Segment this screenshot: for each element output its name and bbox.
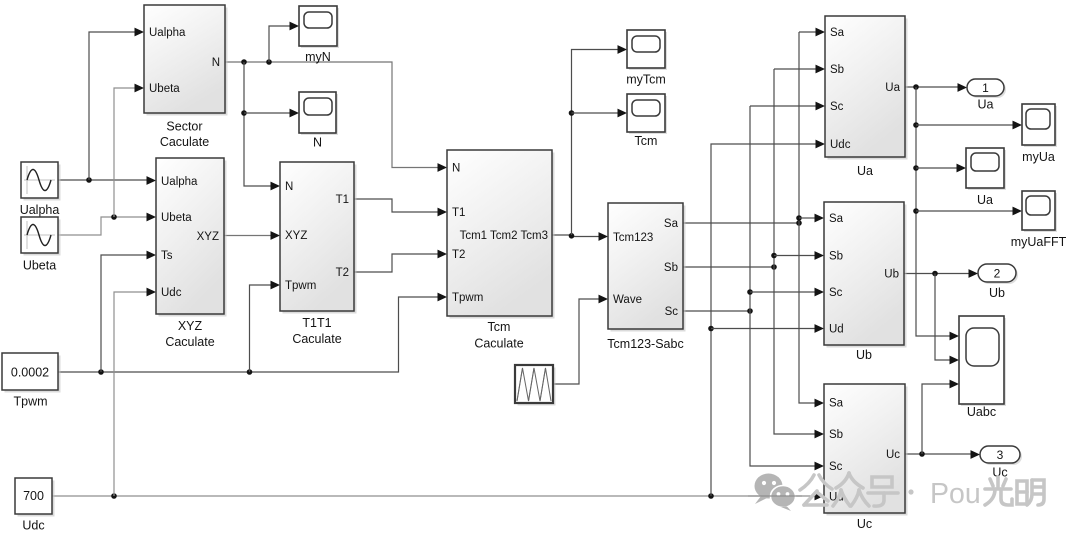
outport 2 Ub	[978, 264, 1018, 300]
wire Ualpha branch up to Sector.Ualpha	[89, 28, 144, 180]
svg-text:N: N	[212, 57, 220, 69]
svg-text:Tcm1 Tcm2 Tcm3: Tcm1 Tcm2 Tcm3	[460, 230, 548, 242]
wire Tpwm constant to Tcm.Tpwm	[58, 293, 447, 375]
triangle wave generator	[515, 365, 556, 406]
scope Uabc	[959, 316, 1006, 419]
svg-text:Tcm: Tcm	[635, 134, 658, 148]
svg-text:Caculate: Caculate	[474, 337, 523, 351]
svg-text:Tcm123: Tcm123	[613, 232, 653, 244]
wire Udc riser to Ua.Udc and Ub.Ud	[708, 140, 825, 496]
svg-text:Sa: Sa	[829, 213, 844, 225]
svg-text:Ubeta: Ubeta	[149, 83, 180, 95]
scope N	[299, 92, 338, 150]
outport 1 Ua	[967, 79, 1006, 112]
svg-text:Ub: Ub	[884, 269, 899, 281]
svg-text:0.0002: 0.0002	[11, 366, 49, 380]
svg-text:Sa: Sa	[664, 218, 679, 230]
wire N branch to scope N	[244, 109, 299, 118]
wire Udc bus segment over watermark	[748, 495, 802, 497]
constant 700 Udc	[15, 478, 55, 533]
svg-text:N: N	[313, 136, 322, 150]
svg-text:Ualpha: Ualpha	[20, 203, 60, 217]
wire Tpwm branch up to XYZ.Ts	[101, 251, 156, 372]
svg-text:Sector: Sector	[166, 120, 202, 134]
svg-text:Ub: Ub	[989, 286, 1005, 300]
wire Tcm branch up to scope myTcm	[569, 45, 627, 235]
svg-text:Udc: Udc	[830, 139, 851, 151]
svg-text:Sb: Sb	[664, 262, 678, 274]
watermark wechat icon	[755, 474, 796, 512]
wire Sa branch to Ub.Sa	[799, 214, 824, 223]
svg-text:Udc: Udc	[161, 287, 182, 299]
svg-text:1: 1	[982, 81, 989, 95]
wire Sc branch to Ub.Sc	[750, 288, 824, 297]
wire N branch up to scope myN	[269, 22, 299, 62]
wire Sector.N output to Tcm.N	[225, 59, 447, 172]
wire Ub bus down to Uabc input 2	[935, 274, 959, 365]
svg-text:T1: T1	[452, 207, 465, 219]
wire Sc bus from Tcm123-Sabc.Sc	[683, 102, 825, 471]
block Sector Caculate U1	[144, 5, 228, 149]
watermark text guang	[985, 477, 1012, 505]
wire Ua bus down to Uabc input 1	[913, 87, 959, 340]
wire Tcm output to Tcm123-Sabc input	[552, 232, 608, 241]
svg-text:Uabc: Uabc	[967, 405, 996, 419]
wire Uc bus up to Uabc input 3	[922, 380, 959, 454]
scope Tcm	[627, 94, 667, 148]
wire Ub output to outport 2	[904, 269, 978, 278]
wire Udc branch to Ub.Ud	[711, 324, 824, 333]
svg-text:Sb: Sb	[830, 64, 844, 76]
svg-text:Tcm: Tcm	[488, 320, 511, 334]
svg-text:myUaFFT: myUaFFT	[1011, 235, 1067, 249]
svg-text:Ud: Ud	[829, 324, 844, 336]
block Tcm123-Sabc U5	[607, 203, 685, 351]
scope myUa	[1022, 104, 1057, 164]
wire Ubeta source to XYZ.Ubeta	[58, 213, 156, 235]
wire Sb branch to Ub.Sb	[774, 251, 824, 260]
wire Ua branch to display Ua	[916, 164, 966, 173]
svg-text:Sa: Sa	[830, 27, 845, 39]
svg-text:Wave: Wave	[613, 294, 642, 306]
wire Ua branch to scope myUa	[916, 121, 1022, 130]
block Tcm Caculate U4	[447, 150, 555, 351]
constant 0.0002 Tpwm	[2, 353, 61, 409]
svg-text:Uc: Uc	[886, 449, 900, 461]
block Ua U6	[825, 16, 908, 178]
svg-text:Ua: Ua	[857, 164, 873, 178]
scope myN	[299, 6, 339, 64]
sine wave source Ubeta	[21, 217, 61, 273]
svg-text:Uc: Uc	[857, 517, 872, 531]
svg-text:3: 3	[997, 448, 1004, 462]
svg-text:Sb: Sb	[829, 251, 843, 263]
wire Sb bus from Tcm123-Sabc.Sb	[683, 65, 825, 439]
wire N branch down to scope N and T1T1.N	[241, 62, 280, 190]
svg-text:Sa: Sa	[829, 398, 844, 410]
svg-text:XYZ: XYZ	[178, 319, 203, 333]
wire Udc branch up to XYZ.Udc	[114, 288, 156, 496]
svg-text:Ub: Ub	[856, 348, 872, 362]
wire Ubeta branch up to Sector.Ubeta	[114, 84, 144, 217]
svg-text:Ualpha: Ualpha	[149, 27, 186, 39]
outport 3 Uc	[980, 446, 1022, 480]
wire Ua output to outport 1	[905, 83, 967, 92]
svg-text:Tcm123-Sabc: Tcm123-Sabc	[607, 337, 683, 351]
svg-text:T1: T1	[336, 194, 349, 206]
svg-text:Caculate: Caculate	[165, 335, 214, 349]
svg-text:T1T1: T1T1	[302, 316, 331, 330]
svg-text:Ua: Ua	[978, 98, 994, 112]
wire Uc output to outport 3	[905, 450, 980, 459]
block XYZ Caculate U2	[156, 158, 227, 349]
wire Sa bus from Tcm123-Sabc.Sa	[683, 28, 825, 408]
svg-text:N: N	[452, 163, 460, 175]
svg-text:Ubeta: Ubeta	[161, 212, 192, 224]
wire Ualpha source to XYZ.Ualpha	[58, 176, 156, 185]
wire Tpwm branch up to T1T1.Tpwm	[250, 281, 281, 372]
svg-text:Caculate: Caculate	[292, 332, 341, 346]
watermark text zhong	[833, 473, 869, 506]
svg-text:Sc: Sc	[829, 287, 843, 299]
svg-text:Tpwm: Tpwm	[13, 395, 47, 409]
watermark text hao	[868, 477, 898, 506]
wire Tcm branch to scope Tcm	[572, 109, 628, 118]
scope myUaFFT	[1011, 191, 1067, 249]
svg-text:Ua: Ua	[977, 193, 993, 207]
svg-text:Tpwm: Tpwm	[452, 292, 483, 304]
block T1T1 Caculate U3	[280, 162, 357, 346]
sine wave source Ualpha	[20, 162, 61, 217]
svg-text:Sb: Sb	[829, 429, 843, 441]
wire XYZ output to T1T1.XYZ	[224, 231, 280, 240]
wire T1T1.T2 to Tcm.T2	[354, 250, 447, 272]
watermark text ming	[1017, 480, 1044, 505]
svg-text:Pou: Pou	[930, 478, 981, 510]
svg-text:Ualpha: Ualpha	[161, 176, 198, 188]
watermark middle dot	[908, 489, 913, 494]
block Ub U7	[824, 202, 907, 362]
svg-text:Udc: Udc	[22, 519, 44, 533]
svg-text:T2: T2	[336, 267, 349, 279]
display Ua	[966, 148, 1006, 207]
svg-text:myN: myN	[305, 50, 331, 64]
svg-text:Sc: Sc	[830, 101, 844, 113]
svg-text:Sc: Sc	[829, 461, 843, 473]
svg-text:N: N	[285, 181, 293, 193]
svg-text:XYZ: XYZ	[197, 231, 219, 243]
watermark text gong	[800, 475, 832, 505]
svg-text:T2: T2	[452, 249, 465, 261]
svg-text:XYZ: XYZ	[285, 230, 307, 242]
wire Udc constant 700 bus to Uc.Ud	[52, 492, 824, 501]
svg-text:Sc: Sc	[665, 306, 679, 318]
svg-text:Ts: Ts	[161, 250, 173, 262]
block Uc U8	[824, 384, 908, 531]
wire triangle wave to Tcm123-Sabc.Wave	[553, 295, 608, 384]
wire T1T1.T1 to Tcm.T1	[354, 199, 447, 216]
svg-text:700: 700	[23, 489, 44, 503]
scope myTcm	[626, 30, 667, 87]
svg-text:Ubeta: Ubeta	[23, 259, 56, 273]
svg-text:Tpwm: Tpwm	[285, 280, 316, 292]
svg-text:Caculate: Caculate	[160, 135, 209, 149]
svg-text:2: 2	[994, 266, 1001, 280]
svg-text:myUa: myUa	[1022, 150, 1055, 164]
wire Ua branch to scope myUaFFT	[916, 207, 1022, 216]
svg-text:myTcm: myTcm	[626, 73, 666, 87]
svg-text:Ua: Ua	[885, 82, 900, 94]
